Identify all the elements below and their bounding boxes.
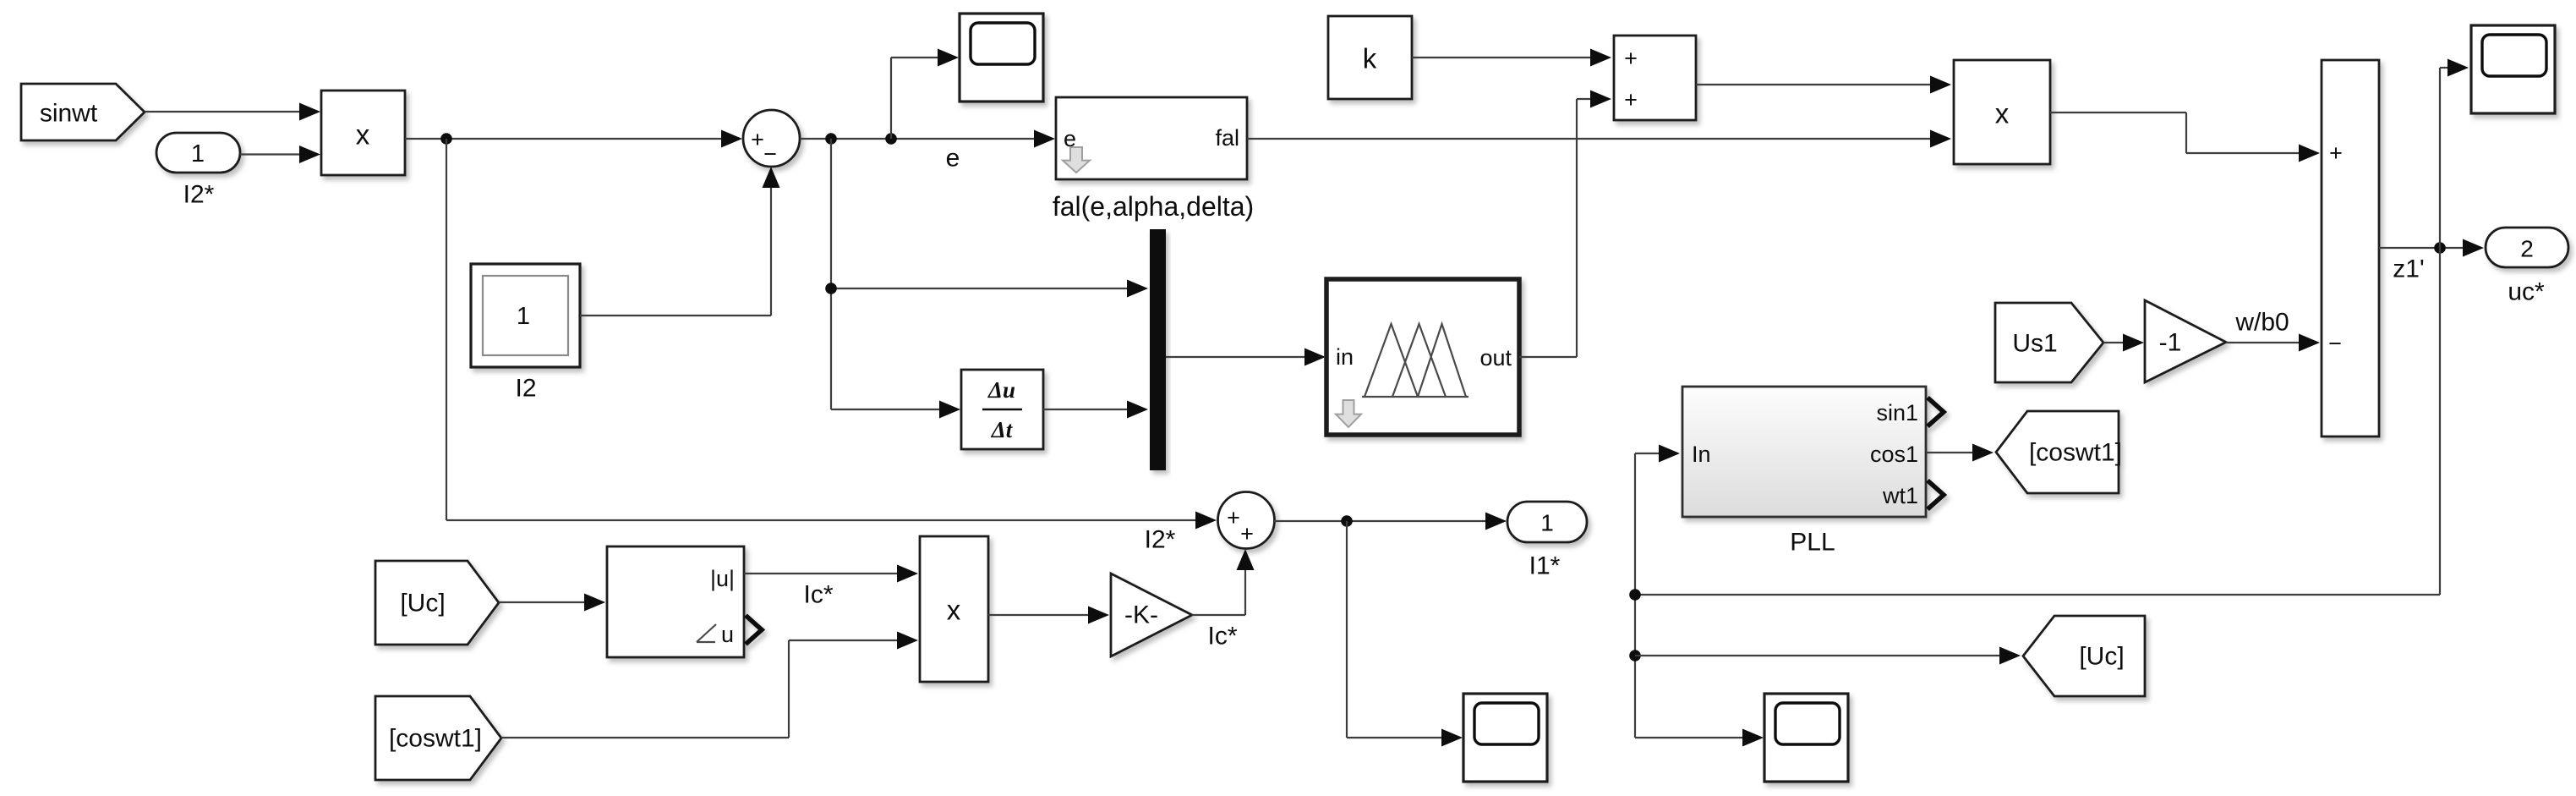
wire junction down to scope4 xyxy=(1347,521,1463,747)
goto tag Uc xyxy=(2023,616,2145,696)
svg-text:[coswt1]: [coswt1] xyxy=(2029,439,2122,467)
wire to goto Uc tag xyxy=(1635,647,2021,665)
sum S2 (+ +) xyxy=(1614,36,1696,120)
label w/b0 xyxy=(2234,309,2289,337)
wire gain -K- to sum S3 xyxy=(1192,549,1255,615)
svg-text:I2: I2 xyxy=(515,375,536,403)
wire fal to product X2 xyxy=(1247,130,1951,148)
junction feedback lower xyxy=(1629,650,1641,662)
wire abs to product X3 xyxy=(744,565,918,583)
svg-text:Ic*: Ic* xyxy=(1207,623,1237,651)
derivative block du/dt xyxy=(961,370,1043,449)
sum S3 (+ +) xyxy=(1218,492,1275,549)
svg-text:-1: -1 xyxy=(2159,329,2182,357)
label I1* xyxy=(1529,552,1561,580)
scope Scope5 near PLL xyxy=(1764,694,1848,782)
svg-text:I2*: I2* xyxy=(1145,526,1176,554)
svg-text:I1*: I1* xyxy=(1529,552,1561,580)
svg-text:2: 2 xyxy=(2520,236,2534,262)
wire mux to fuzzy block xyxy=(1166,349,1326,366)
constant block k xyxy=(1328,16,1412,99)
junction e-node xyxy=(825,133,837,145)
svg-text:+: + xyxy=(1624,87,1638,113)
label z1quote xyxy=(2393,255,2424,283)
fal function block xyxy=(1056,97,1247,179)
svg-text:in: in xyxy=(1336,344,1354,370)
from tag Uc xyxy=(375,561,499,645)
label I2* under inport xyxy=(183,181,215,209)
svg-text:+: + xyxy=(2329,140,2343,166)
wire coswt1 tag to product X3 xyxy=(501,632,918,738)
wire S2 to product X2 xyxy=(1696,76,1951,94)
wire feedback to PLL In xyxy=(1635,445,1680,738)
label e xyxy=(946,145,960,173)
svg-text:uc*: uc* xyxy=(2508,278,2545,306)
wire down to scope5 xyxy=(1635,729,1764,747)
svg-text:Δt: Δt xyxy=(991,417,1014,442)
fuzzy logic controller block xyxy=(1326,279,1519,435)
svg-text:u: u xyxy=(721,622,734,647)
svg-text:In: In xyxy=(1692,442,1711,467)
svg-text:Us1: Us1 xyxy=(2012,330,2057,358)
wire branch up to scope1 xyxy=(891,49,959,140)
wire junction up to scope2 xyxy=(2440,59,2469,249)
wire gain -1 to add block minus input xyxy=(2226,334,2320,352)
svg-text:w/b0: w/b0 xyxy=(2234,309,2289,337)
wire I2 to sum S1 minus input xyxy=(580,167,780,316)
svg-text:e: e xyxy=(946,145,960,173)
svg-text:k: k xyxy=(1363,43,1377,74)
product block X2 xyxy=(1954,60,2050,164)
wire inport1 to product X1 xyxy=(240,145,320,163)
svg-text:wt1: wt1 xyxy=(1882,483,1918,508)
data store I2 xyxy=(471,264,580,367)
wire branch down to mux and derivative xyxy=(831,139,1148,419)
svg-text:+: + xyxy=(1240,521,1254,546)
svg-text:I2*: I2* xyxy=(183,181,215,209)
subsystem PLL xyxy=(1682,387,1944,517)
wire S3 to outport I1* xyxy=(1274,513,1507,530)
junction feedback upper xyxy=(1629,589,1641,601)
sum S1 (+ -) xyxy=(743,110,800,167)
wire sinwt to product X1 xyxy=(145,103,320,121)
junction at X1 output xyxy=(440,133,452,145)
svg-text:sin1: sin1 xyxy=(1876,400,1918,425)
goto tag coswt1 xyxy=(1996,411,2122,493)
junction mux branch xyxy=(825,283,837,294)
wire derivative to mux xyxy=(1043,401,1148,419)
label Ic* at gain output xyxy=(1207,623,1237,651)
wire feedback junction down and left xyxy=(1635,248,2440,595)
svg-text:x: x xyxy=(947,595,961,626)
svg-text:1: 1 xyxy=(517,303,530,330)
svg-text:x: x xyxy=(1995,98,2010,129)
svg-text:+: + xyxy=(1227,505,1240,530)
svg-text:+: + xyxy=(751,127,764,152)
label I2 under block xyxy=(515,375,536,403)
wire k to sum S2 xyxy=(1412,49,1611,67)
svg-text:PLL: PLL xyxy=(1790,529,1835,557)
inport 1 I2* xyxy=(156,133,240,173)
add block (+ -) tall xyxy=(2322,60,2379,436)
svg-text:|u|: |u| xyxy=(710,566,735,591)
svg-text:+: + xyxy=(1624,46,1638,71)
svg-text:−: − xyxy=(763,141,777,167)
junction to scope1 branch xyxy=(885,133,897,145)
svg-text:Δu: Δu xyxy=(987,377,1015,403)
scope Scope1 xyxy=(960,14,1043,102)
svg-text:1: 1 xyxy=(191,140,205,167)
wire S1 output to fal xyxy=(800,130,1055,148)
wire X1 to sum S1 xyxy=(405,130,742,148)
svg-text:[Uc]: [Uc] xyxy=(400,590,445,618)
wire junction down-left to sum S3 xyxy=(446,139,1217,530)
svg-text:z1': z1' xyxy=(2393,255,2424,283)
gain block -1 xyxy=(2145,300,2226,382)
label uc* xyxy=(2508,278,2545,306)
svg-text:sinwt: sinwt xyxy=(40,100,98,128)
junction z1 node xyxy=(2434,242,2446,254)
svg-text:fal(e,alpha,delta): fal(e,alpha,delta) xyxy=(1053,191,1254,222)
from tag sinwt xyxy=(21,84,145,140)
svg-text:x: x xyxy=(356,119,370,151)
svg-text:cos1: cos1 xyxy=(1870,442,1918,467)
wire X3 to gain -K- xyxy=(988,607,1109,624)
from tag Us1 xyxy=(1995,303,2103,382)
from tag coswt1 xyxy=(375,696,501,780)
svg-text:Ic*: Ic* xyxy=(803,581,833,609)
wire Uc tag to abs block xyxy=(499,594,605,612)
product block X3 xyxy=(920,536,988,682)
outport 1 I1* xyxy=(1507,502,1587,542)
mux bar xyxy=(1150,229,1166,470)
svg-text:[Uc]: [Uc] xyxy=(2079,643,2124,671)
outport 2 uc* xyxy=(2486,228,2568,267)
wire Us1 to gain -1 xyxy=(2103,334,2144,352)
wire X2 to add block plus input xyxy=(2050,113,2320,162)
product block X1 xyxy=(321,91,405,175)
label fal(e,alpha,delta) xyxy=(1053,191,1254,222)
junction S3 output xyxy=(1341,515,1353,527)
label PLL xyxy=(1790,529,1835,557)
label I2* near sum S3 xyxy=(1145,526,1176,554)
wire PLL cos1 to goto coswt1 xyxy=(1926,444,1994,462)
svg-text:out: out xyxy=(1479,345,1512,371)
svg-text:fal: fal xyxy=(1215,125,1239,151)
label Ic* on abs wire xyxy=(803,581,833,609)
scope Scope4 bottom middle xyxy=(1463,694,1547,782)
svg-text:[coswt1]: [coswt1] xyxy=(389,725,482,753)
svg-text:-K-: -K- xyxy=(1124,601,1158,629)
gain block -K- xyxy=(1111,574,1192,656)
svg-text:1: 1 xyxy=(1540,510,1554,536)
wire fuzzy out to sum S2 xyxy=(1519,91,1611,358)
wire add output to outport uc* xyxy=(2379,239,2484,257)
scope Scope2 top right xyxy=(2471,25,2555,113)
abs and angle block xyxy=(607,546,762,657)
svg-text:−: − xyxy=(2328,331,2342,356)
